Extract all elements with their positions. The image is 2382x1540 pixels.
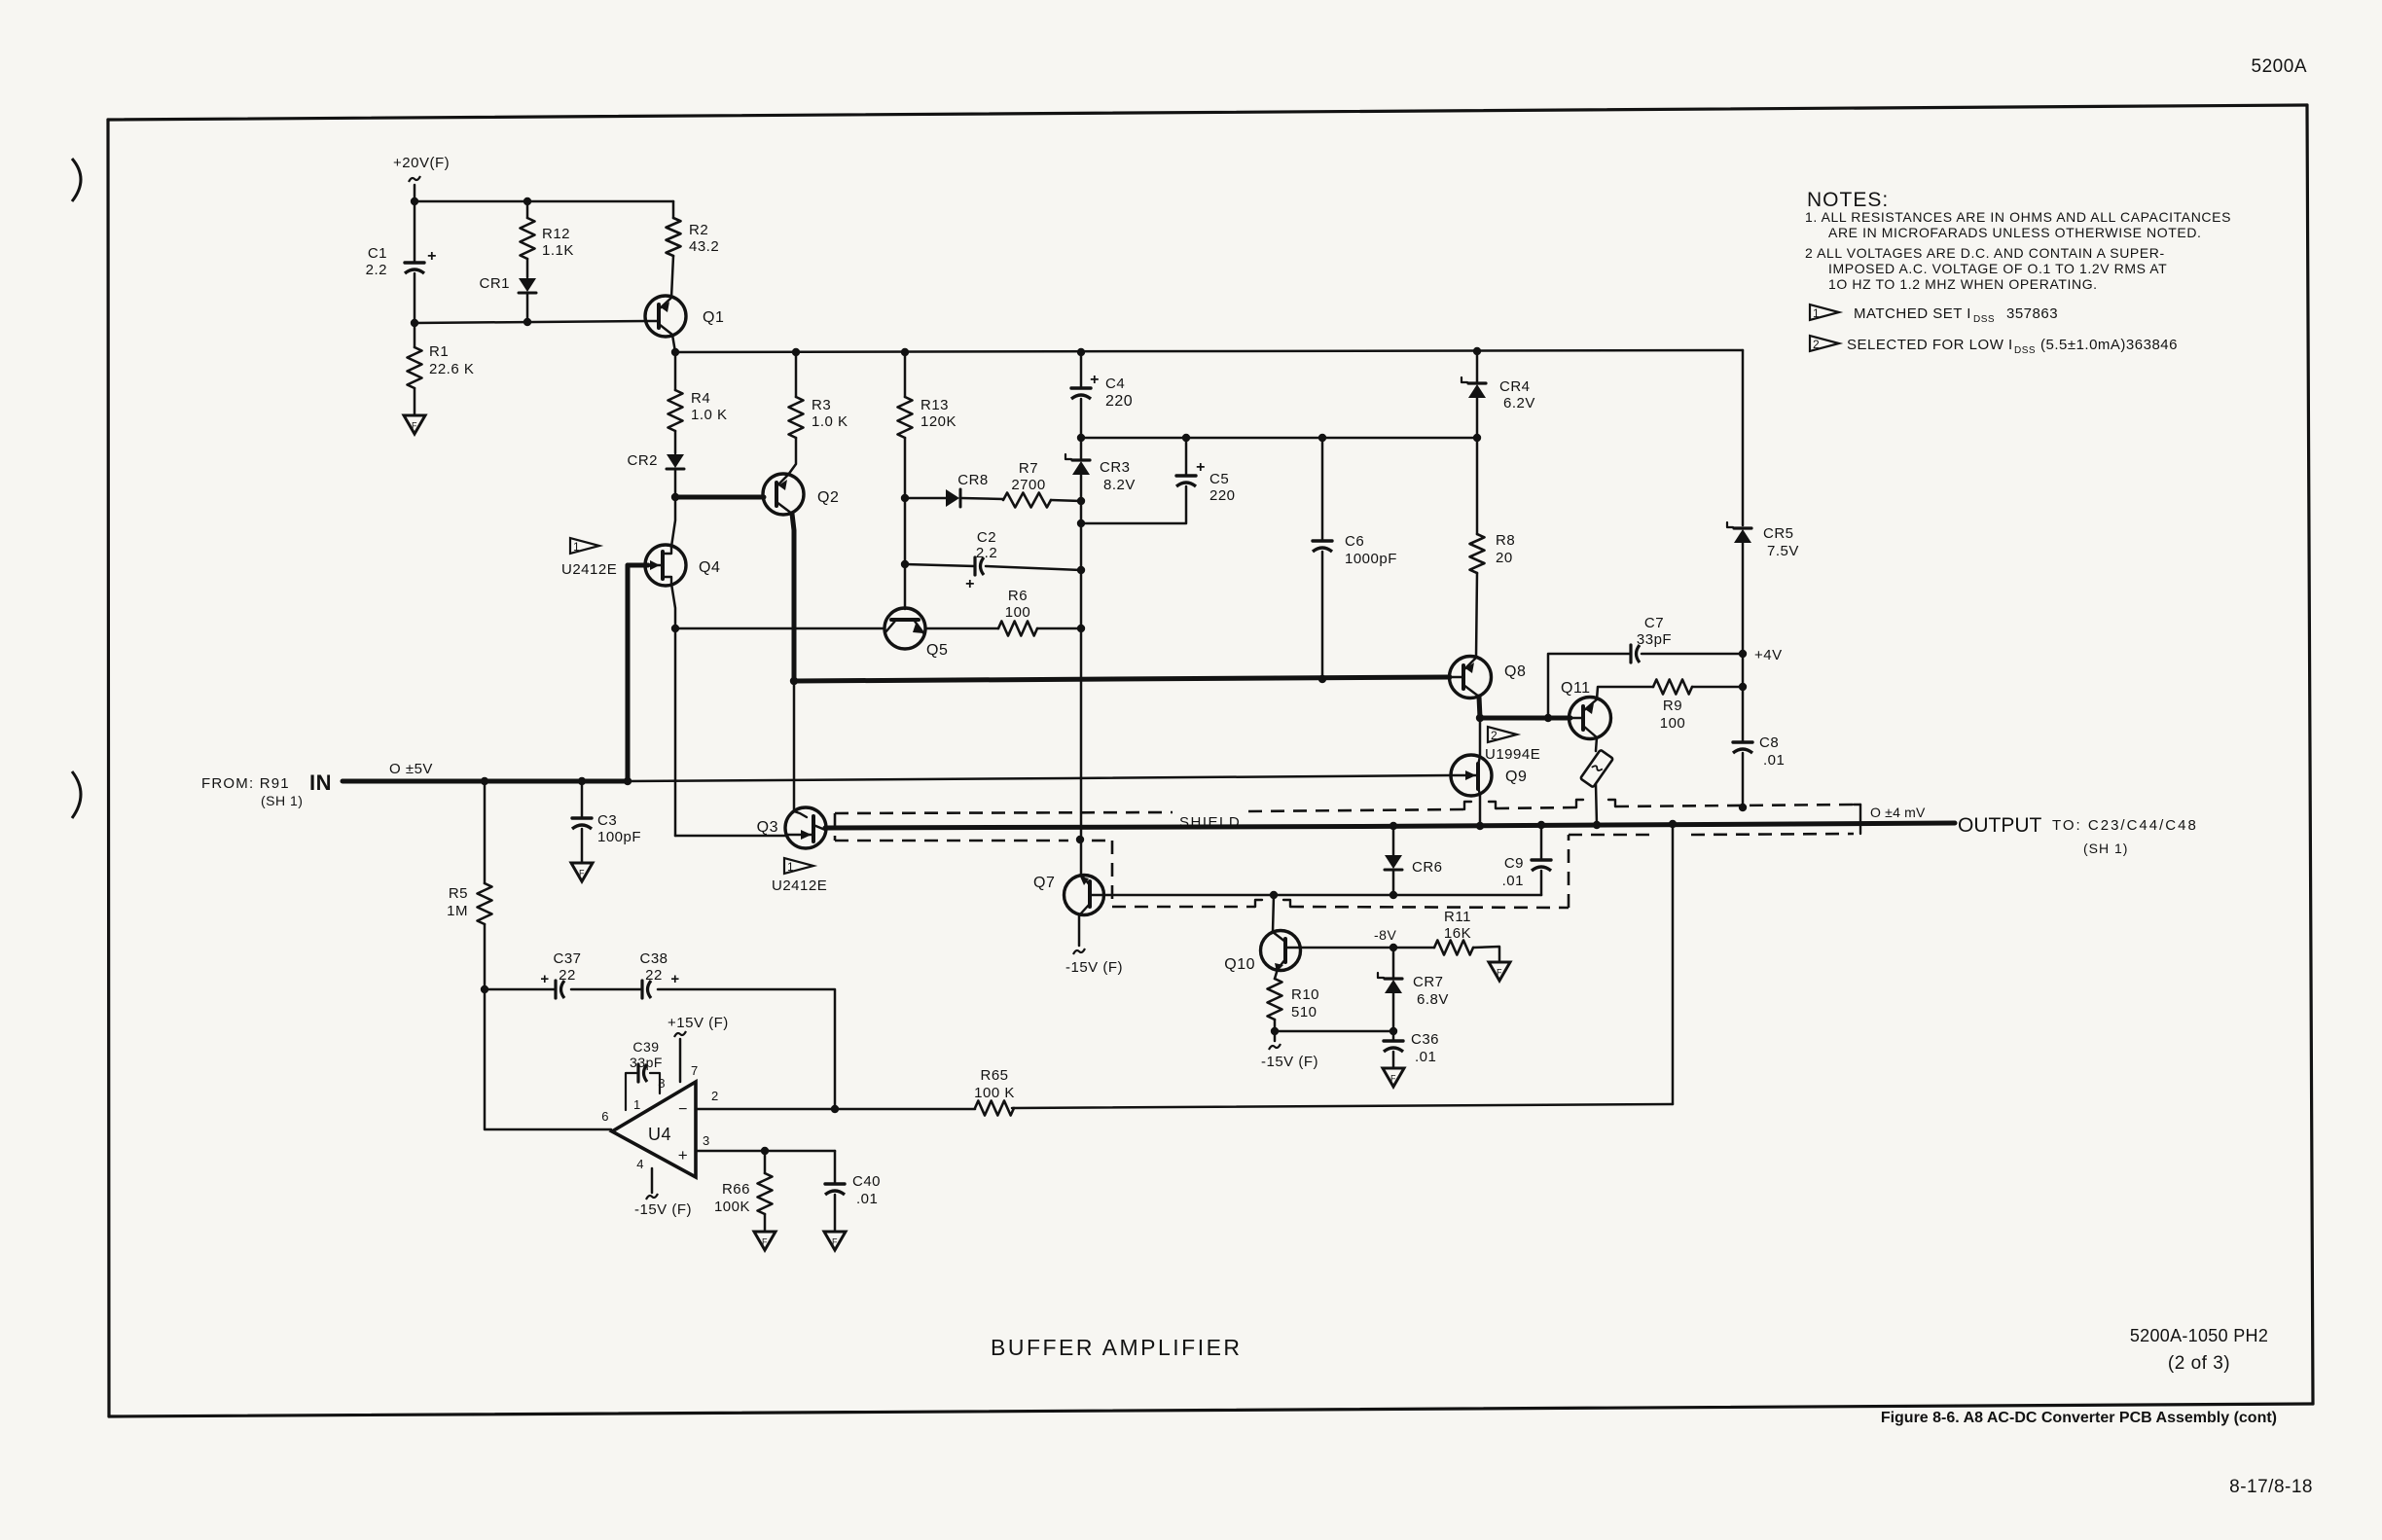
wire mid rail — [1081, 437, 1477, 440]
transistor Q9 mosfet — [1451, 755, 1527, 796]
node R5/C37/opamp — [481, 985, 488, 993]
resistor R2 — [667, 201, 720, 298]
svg-text:+4V: +4V — [1754, 647, 1783, 663]
wire Q4 source — [671, 584, 675, 628]
svg-text:IN: IN — [309, 770, 332, 795]
svg-text:220: 220 — [1209, 487, 1236, 504]
svg-text:SHIELD: SHIELD — [1179, 814, 1241, 831]
note 1 line 2 — [1828, 225, 2202, 240]
svg-text:CR4: CR4 — [1499, 378, 1531, 395]
svg-text:R13: R13 — [920, 397, 949, 413]
zener CR3 — [1065, 438, 1136, 501]
svg-text:2: 2 — [711, 1089, 719, 1103]
svg-text:F: F — [579, 869, 585, 878]
capacitor C1 — [366, 201, 437, 323]
transistor Q7 — [1033, 875, 1104, 915]
capacitor C7 — [1631, 615, 1672, 663]
svg-text:+: + — [1090, 372, 1100, 388]
resistor R3 — [788, 352, 848, 475]
svg-text:22.6 K: 22.6 K — [429, 361, 474, 377]
resistor R7 — [1003, 460, 1051, 508]
node bus/R4 — [671, 348, 679, 356]
svg-text:(2 of 3): (2 of 3) — [2168, 1353, 2230, 1374]
svg-text:+: + — [678, 1146, 688, 1164]
svg-text:F: F — [412, 421, 417, 431]
shield label — [1179, 814, 1241, 831]
svg-text:O ±4 mV: O ±4 mV — [1870, 805, 1926, 820]
wire pin2 to R65 — [696, 1108, 975, 1111]
wire Q7 emitter -15V — [1073, 914, 1085, 954]
svg-text:SELECTED FOR LOW I: SELECTED FOR LOW I — [1847, 337, 2013, 353]
svg-text:F: F — [1497, 968, 1502, 978]
label 0+/-4mV — [1870, 805, 1926, 820]
svg-text:22: 22 — [559, 967, 576, 984]
wire OUTPUT thick — [825, 823, 1955, 828]
wire IN to Q9 gate — [628, 775, 1450, 781]
node thick bus corner — [790, 677, 798, 685]
svg-text:Figure 8-6. A8 AC-DC Converter: Figure 8-6. A8 AC-DC Converter PCB Assem… — [1881, 1410, 2277, 1426]
ferrite bead FB1 — [1580, 750, 1613, 788]
svg-text:F: F — [1390, 1074, 1396, 1084]
svg-text:100pF: 100pF — [597, 829, 641, 845]
shield dashed bottom-left2 — [1092, 840, 1112, 842]
capacitor C4 — [1071, 352, 1133, 438]
transistor Q8 — [1450, 657, 1527, 698]
svg-text:7: 7 — [691, 1063, 699, 1078]
svg-text:CR1: CR1 — [479, 275, 510, 292]
svg-text:R12: R12 — [542, 226, 570, 242]
wire R13 to C2 node — [904, 498, 907, 564]
node Q8e/Q9 column — [1476, 714, 1484, 722]
shield dashed top-left — [835, 812, 1173, 813]
svg-text:Q8: Q8 — [1504, 663, 1526, 680]
capacitor C5 — [1081, 438, 1236, 523]
svg-text:R3: R3 — [812, 397, 831, 413]
svg-text:100: 100 — [1005, 604, 1031, 621]
shield dashed top-mid2 — [1496, 807, 1576, 808]
label -15V pin4 — [634, 1201, 692, 1218]
binding mark upper — [72, 159, 81, 201]
svg-text:FROM: R91: FROM: R91 — [201, 775, 290, 792]
wire gate column thick — [626, 565, 631, 781]
node -8V — [1374, 927, 1397, 951]
node +20V label — [393, 155, 450, 182]
svg-text:C38: C38 — [639, 950, 668, 967]
svg-text:Q9: Q9 — [1505, 769, 1527, 785]
node R10 bottom — [1271, 1027, 1279, 1035]
svg-text:(5.5±1.0mA)363846: (5.5±1.0mA)363846 — [2040, 337, 2178, 353]
svg-text:+: + — [1196, 459, 1206, 476]
node bus/R13 — [901, 348, 909, 356]
wire R10 to C36 — [1275, 1030, 1393, 1033]
svg-text:C5: C5 — [1209, 471, 1229, 487]
svg-text:2.2: 2.2 — [366, 262, 387, 278]
node IN/C3 — [578, 777, 586, 785]
svg-text:C1: C1 — [368, 245, 387, 262]
svg-text:R7: R7 — [1019, 460, 1038, 477]
svg-text:1: 1 — [633, 1097, 641, 1112]
flag note 2 — [1810, 336, 2178, 356]
node rail/CR3 — [1077, 434, 1085, 442]
wire base rail to Q1 — [415, 321, 647, 323]
shield dashed top-mid — [1248, 809, 1464, 811]
resistor R12 — [521, 201, 574, 277]
svg-text:CR6: CR6 — [1412, 859, 1443, 876]
node Q2 base junction — [671, 493, 679, 501]
transistor Q5 — [884, 608, 948, 659]
wire Q5 to R6 — [925, 627, 998, 630]
wire top bus corner down — [1742, 350, 1745, 525]
transistor Q2 — [763, 474, 839, 515]
svg-text:C7: C7 — [1644, 615, 1664, 631]
svg-text:Q1: Q1 — [703, 309, 724, 326]
resistor R5 — [447, 781, 491, 989]
flag U2412E Q3 — [772, 858, 827, 894]
wire C37-C38 — [571, 988, 642, 991]
node Q9/output — [1476, 822, 1484, 830]
svg-text:43.2: 43.2 — [689, 238, 719, 255]
svg-text:5200A-1050 PH2: 5200A-1050 PH2 — [2130, 1326, 2268, 1345]
wire Q8 emitter thick — [1479, 697, 1480, 718]
shield dashed bottom mid2 — [1290, 907, 1569, 908]
svg-text:IMPOSED A.C. VOLTAGE OF O.1 TO: IMPOSED A.C. VOLTAGE OF O.1 TO 1.2V RMS … — [1828, 261, 2167, 276]
shield dashed bottom mid — [1112, 906, 1255, 909]
svg-text:+: + — [427, 248, 437, 265]
capacitor C38 — [639, 950, 679, 998]
caption figure — [1881, 1410, 2277, 1426]
node bus/C4 — [1077, 348, 1085, 356]
node CR1 bottom — [523, 318, 531, 326]
transistor Q10 — [1224, 931, 1300, 974]
svg-text:+: + — [965, 576, 975, 592]
svg-text:1O HZ TO 1.2 MHZ WHEN OPERATIN: 1O HZ TO 1.2 MHZ WHEN OPERATING. — [1828, 276, 2098, 292]
note 2 line 1 — [1805, 245, 2165, 261]
svg-text:−: − — [678, 1101, 688, 1118]
node CR7/C36 — [1389, 1027, 1397, 1035]
wire Q2 emitter thick — [792, 514, 794, 681]
svg-text:1M: 1M — [447, 903, 468, 919]
svg-text:2.2: 2.2 — [976, 545, 997, 561]
transistor Q3 mosfet — [757, 807, 826, 848]
resistor R65 — [974, 1067, 1015, 1116]
svg-text:-15V (F): -15V (F) — [1261, 1054, 1318, 1070]
capacitor C36 — [1384, 1031, 1439, 1067]
wire CR8 row — [905, 497, 946, 500]
svg-text:CR8: CR8 — [957, 472, 989, 488]
ground under R1 — [404, 415, 425, 434]
svg-text:C8: C8 — [1759, 734, 1779, 751]
node rail/C5 — [1182, 434, 1190, 442]
shield left edge — [834, 813, 837, 841]
capacitor C37 — [540, 950, 581, 998]
wire C2 right — [986, 566, 1081, 570]
svg-text:+20V(F): +20V(F) — [393, 155, 450, 171]
resistor R66 — [714, 1151, 773, 1231]
wire Q4 drain — [671, 497, 675, 547]
wire top bus — [675, 350, 1743, 352]
diode CR8 — [946, 472, 989, 507]
wire R10 -15V stub — [1269, 1031, 1281, 1050]
node C5/CR3 column — [1077, 519, 1085, 527]
svg-text:.01: .01 — [856, 1191, 878, 1207]
resistor R9 — [1653, 680, 1692, 733]
svg-text:1.0 K: 1.0 K — [691, 407, 728, 423]
svg-text:F: F — [832, 1237, 838, 1247]
svg-text:C9: C9 — [1504, 855, 1524, 872]
wire opamp out column — [485, 989, 611, 1129]
wire Q11 collector — [1597, 687, 1653, 699]
node Q7row/CR6 — [1389, 891, 1397, 899]
svg-text:100K: 100K — [714, 1199, 750, 1215]
svg-text:6.8V: 6.8V — [1417, 991, 1449, 1008]
svg-text:8-17/8-18: 8-17/8-18 — [2229, 1477, 2313, 1497]
wire CR3 column lower — [1080, 501, 1083, 628]
wire CR8 to R7 — [961, 498, 1003, 499]
transistor Q11 — [1561, 680, 1611, 739]
wire R5 to C37 — [485, 988, 556, 991]
svg-text:1: 1 — [1813, 306, 1820, 320]
wire Q7 collector column — [1080, 628, 1083, 875]
transistor Q4 mosfet — [645, 545, 720, 586]
svg-text:Q2: Q2 — [817, 489, 839, 506]
node A (+20V rail left) — [411, 197, 418, 205]
svg-text:NOTES:: NOTES: — [1807, 189, 1889, 211]
svg-text:-15V (F): -15V (F) — [1065, 959, 1123, 976]
svg-text:220: 220 — [1105, 393, 1133, 410]
svg-text:C37: C37 — [553, 950, 581, 967]
svg-text:U4: U4 — [648, 1125, 671, 1144]
wire Q9 drain — [1479, 718, 1482, 756]
svg-text:R66: R66 — [722, 1181, 750, 1198]
svg-text:U1994E: U1994E — [1485, 746, 1540, 763]
shield right bracket — [1854, 805, 1860, 834]
svg-text:C40: C40 — [852, 1173, 881, 1190]
svg-text:R8: R8 — [1496, 532, 1515, 549]
svg-text:8.2V: 8.2V — [1103, 477, 1136, 493]
node bus/CR4 — [1473, 347, 1481, 355]
node IN/R5 — [481, 777, 488, 785]
transistor Q1 — [645, 296, 724, 337]
svg-text:CR2: CR2 — [627, 452, 658, 469]
wire C38 branch — [658, 989, 835, 1109]
svg-text:33pF: 33pF — [1637, 631, 1672, 648]
node R13/CR8 — [901, 494, 909, 502]
wire +15V pin7 — [674, 1031, 686, 1082]
diode CR2 — [627, 452, 684, 497]
svg-text:16K: 16K — [1444, 925, 1471, 942]
caption sheet number — [2130, 1326, 2268, 1374]
svg-text:1. ALL RESISTANCES ARE IN OHM: 1. ALL RESISTANCES ARE IN OHMS AND ALL C… — [1805, 209, 2231, 225]
note 2 line 2 — [1828, 261, 2167, 276]
zener CR5 — [1727, 522, 1799, 654]
wire C2 left — [905, 564, 975, 566]
label -15V R10 — [1261, 1054, 1318, 1070]
capacitor C2 — [965, 529, 997, 592]
shield dashed top-right — [1615, 805, 1854, 806]
node C8/shield — [1739, 804, 1747, 811]
svg-text:R2: R2 — [689, 222, 708, 238]
node output/CR6 — [1389, 822, 1397, 830]
svg-text:-15V (F): -15V (F) — [634, 1201, 692, 1218]
node R6/CR3 column — [1077, 625, 1085, 632]
label OUTPUT — [1958, 814, 2042, 837]
svg-text:R11: R11 — [1444, 909, 1471, 925]
shield box2 top — [1569, 834, 1854, 835]
wire Q3 gate — [675, 835, 786, 838]
node R12 top — [523, 197, 531, 205]
node R9/column — [1739, 683, 1747, 691]
ground R66 — [754, 1232, 776, 1250]
binding mark lower — [72, 771, 81, 818]
node rail/R8 — [1473, 434, 1481, 442]
svg-text:5200A: 5200A — [2252, 56, 2307, 77]
svg-text:2700: 2700 — [1011, 477, 1045, 493]
node Q7row/Q10 — [1270, 891, 1278, 899]
wire Q10 base column — [1273, 895, 1274, 932]
wire +20V rail — [415, 200, 673, 203]
svg-text:(SH 1): (SH 1) — [2083, 841, 2128, 856]
svg-text:.01: .01 — [1763, 752, 1785, 769]
svg-text:6.2V: 6.2V — [1503, 395, 1535, 412]
svg-text:ARE IN MICROFARADS UNLESS OTHE: ARE IN MICROFARADS UNLESS OTHERWISE NOTE… — [1828, 225, 2202, 240]
svg-text:R10: R10 — [1291, 986, 1319, 1003]
svg-text:DSS: DSS — [2014, 345, 2036, 356]
wire -15V pin4 — [646, 1168, 658, 1200]
svg-text:DSS: DSS — [1973, 314, 1995, 325]
capacitor C8 — [1733, 687, 1785, 807]
svg-text:7.5V: 7.5V — [1767, 543, 1799, 559]
diode CR6 — [1385, 826, 1443, 895]
shield notch Q11 column — [1576, 800, 1615, 807]
svg-text:22: 22 — [645, 967, 663, 984]
svg-text:R65: R65 — [980, 1067, 1008, 1084]
node pin3/R66 — [761, 1147, 769, 1155]
svg-text:CR3: CR3 — [1100, 459, 1131, 476]
node +4V — [1739, 647, 1783, 663]
node C2/CR3 column — [1077, 566, 1085, 574]
flag U2412E Q4 — [561, 538, 617, 578]
svg-text:Q7: Q7 — [1033, 875, 1055, 891]
svg-text:.01: .01 — [1502, 873, 1524, 889]
svg-text:C6: C6 — [1345, 533, 1364, 550]
capacitor C3 — [572, 781, 641, 862]
svg-text:1: 1 — [573, 540, 580, 554]
svg-text:1.1K: 1.1K — [542, 242, 574, 259]
title 5200A — [2252, 56, 2307, 77]
svg-text:U2412E: U2412E — [772, 877, 827, 894]
flag note 1 — [1810, 304, 2058, 325]
node output/C9 — [1537, 821, 1545, 829]
svg-text:100 K: 100 K — [974, 1085, 1015, 1101]
svg-text:R1: R1 — [429, 343, 449, 360]
wire R13 to Q5 — [904, 564, 907, 609]
svg-text:U2412E: U2412E — [561, 561, 617, 578]
resistor R1 — [408, 323, 475, 415]
svg-text:R5: R5 — [449, 885, 468, 902]
svg-text:C36: C36 — [1411, 1031, 1439, 1048]
wire main thick bus — [794, 677, 1450, 681]
svg-text:+: + — [540, 971, 549, 987]
node rail/C6 — [1318, 434, 1326, 442]
caption page number — [2229, 1477, 2313, 1497]
svg-text:+: + — [670, 971, 679, 987]
label -15V Q7 — [1065, 959, 1123, 976]
node Q11e/output — [1593, 821, 1601, 829]
svg-text:CR7: CR7 — [1413, 974, 1444, 990]
svg-text:C4: C4 — [1105, 376, 1125, 392]
wire C7 branch up — [1548, 654, 1631, 718]
node Q4 source junction — [671, 625, 679, 632]
ground C36 — [1383, 1068, 1404, 1087]
note 2 line 3 — [1828, 276, 2098, 292]
svg-text:TO: C23/C44/C48: TO: C23/C44/C48 — [2052, 817, 2198, 834]
svg-text:F: F — [762, 1237, 768, 1247]
wire R11 to gnd — [1473, 947, 1499, 962]
wire +4V to R9 node — [1742, 654, 1745, 687]
node C2 left — [901, 560, 909, 568]
svg-text:1: 1 — [787, 860, 794, 874]
wire feedback horizontal — [1012, 1104, 1673, 1108]
wire gate feed column — [674, 628, 677, 836]
svg-text:C2: C2 — [977, 529, 996, 546]
wire FB to output — [1596, 784, 1597, 825]
capacitor C9 — [1502, 825, 1551, 895]
svg-text:510: 510 — [1291, 1004, 1317, 1021]
svg-text:MATCHED SET I: MATCHED SET I — [1854, 305, 1971, 322]
svg-text:357863: 357863 — [2006, 305, 2058, 322]
svg-text:2 ALL VOLTAGES ARE D.C. AND: 2 ALL VOLTAGES ARE D.C. AND CONTAIN A SU… — [1805, 245, 2165, 261]
node bus/R3 — [792, 348, 800, 356]
shield dashed bottom-left — [835, 840, 1068, 842]
shield notch Q10 column — [1255, 900, 1290, 907]
resistor R4 — [668, 352, 728, 453]
label FROM R91 — [201, 770, 332, 808]
wire feedback vertical — [1672, 824, 1675, 1104]
wire C7 to +4V — [1642, 653, 1743, 656]
resistor R10 — [1268, 969, 1320, 1031]
node C7 branch — [1544, 714, 1552, 722]
zener CR7 — [1378, 948, 1449, 1030]
svg-text:Q10: Q10 — [1224, 956, 1255, 973]
shield box2 left edge — [1568, 835, 1570, 908]
svg-text:.01: .01 — [1415, 1049, 1436, 1065]
ground R11 — [1489, 962, 1510, 981]
resistor R8 — [1470, 438, 1516, 658]
wire R6 to CR3 column — [1037, 627, 1081, 630]
svg-text:4: 4 — [636, 1157, 644, 1171]
node C1/R1 junction — [411, 319, 418, 327]
node output/feedback — [1669, 820, 1677, 828]
wire pin3 — [696, 1150, 835, 1153]
wire Q4 source to Q5 — [675, 627, 884, 630]
svg-text:Q3: Q3 — [757, 819, 778, 836]
svg-text:1.0 K: 1.0 K — [812, 413, 848, 430]
wire Q2e column to Q3 — [793, 681, 796, 811]
note 1 line 1 — [1805, 209, 2231, 225]
svg-text:O ±5V: O ±5V — [389, 761, 433, 777]
node shield/Q7 column — [1076, 836, 1084, 843]
page border frame — [108, 105, 2313, 1416]
notes title — [1807, 189, 1889, 211]
label 0 +/-5V — [389, 761, 433, 777]
shield step down — [1111, 841, 1114, 907]
svg-text:R6: R6 — [1008, 588, 1028, 604]
svg-text:(SH 1): (SH 1) — [261, 793, 303, 808]
svg-text:C39: C39 — [632, 1039, 659, 1055]
wire +20V stub — [414, 185, 416, 201]
zener CR4 — [1462, 351, 1535, 438]
svg-text:Q11: Q11 — [1561, 680, 1591, 697]
